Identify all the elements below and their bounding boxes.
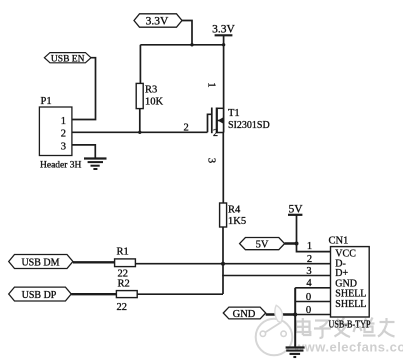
svg-text:R4: R4 (228, 205, 241, 216)
transistor T1 SI2301SD (208, 108, 270, 140)
wire T1 source down (222, 133, 224, 204)
wire CN1 pin4 GND stub (295, 287, 330, 289)
power port 3.3V (212, 23, 235, 45)
junction R3/pin2 (138, 131, 141, 134)
svg-text:2: 2 (61, 129, 66, 140)
svg-text:R2: R2 (118, 279, 130, 290)
ground CN1 (286, 348, 305, 358)
svg-text:Header 3H: Header 3H (40, 160, 82, 170)
svg-text:5V: 5V (256, 240, 269, 251)
wire R2 to R4 rail (137, 293, 223, 295)
svg-text:CN1: CN1 (329, 236, 349, 247)
svg-text:2: 2 (213, 128, 218, 139)
svg-text:22: 22 (117, 302, 128, 313)
junction (190, 43, 193, 46)
wire R1 to CN1 pin2 (D-) (135, 263, 330, 265)
svg-text:3: 3 (306, 266, 311, 277)
wire USB_DP to R2 (71, 293, 116, 295)
svg-text:10K: 10K (145, 97, 164, 108)
net label USB_EN flag (44, 53, 91, 65)
wire bus to R3 (139, 45, 141, 84)
svg-text:0: 0 (306, 292, 311, 303)
svg-text:USB DP: USB DP (22, 290, 57, 301)
watermark logo sprout (overlaps wire) (275, 305, 283, 322)
net label GND flag (223, 307, 265, 320)
svg-text:1: 1 (206, 82, 217, 87)
svg-text:USB EN: USB EN (51, 54, 85, 64)
wire CN1 pin5 shell stub (295, 301, 330, 303)
svg-text:USB-B-TYP: USB-B-TYP (329, 320, 371, 331)
svg-text:3.3V: 3.3V (146, 16, 169, 28)
wire R4 down to D+ line (222, 227, 224, 294)
wire 3.3V flag to bus (182, 21, 192, 45)
connector P1 (39, 96, 81, 171)
junction (222, 43, 225, 46)
wire R3 to gate net (139, 109, 141, 133)
svg-text:GND: GND (233, 309, 256, 320)
svg-text:SI2301SD: SI2301SD (228, 120, 270, 131)
wire D+ to CN1 pin3 (222, 275, 330, 277)
power port 5V (288, 204, 331, 252)
svg-text:R3: R3 (145, 85, 157, 96)
ground P1 (84, 159, 107, 170)
resistor R3 (136, 83, 163, 108)
wire USB_EN to P1 pin1 (72, 58, 96, 120)
resistor R2 (116, 279, 137, 313)
wire 5V flag to 5V stem (285, 242, 297, 245)
resistor R1 (115, 246, 136, 279)
svg-text:USB DM: USB DM (21, 258, 59, 269)
wire 3.3V horizontal bus (140, 44, 223, 46)
wire P1 pin2 to T1 gate (72, 131, 208, 133)
net label USB_DM flag (9, 255, 73, 269)
svg-text:1: 1 (307, 241, 312, 252)
wire P1 pin3 to ground (72, 145, 95, 158)
svg-text:SHELL: SHELL (335, 299, 366, 310)
wire GND flag to CN1 pin6 (266, 313, 296, 315)
connector CN1 (329, 236, 371, 331)
svg-text:3.3V: 3.3V (212, 23, 235, 35)
svg-text:R1: R1 (117, 246, 129, 257)
net label USB_DP flag (9, 287, 71, 301)
net label 3.3V flag (134, 14, 182, 28)
svg-text:2: 2 (307, 254, 312, 265)
resistor R4 (220, 203, 246, 227)
watermark text dianzifashaoyou (hand-drawn glyph blocks) (296, 318, 395, 339)
junction gnd (293, 313, 297, 317)
svg-text:3: 3 (206, 158, 217, 163)
net label 5V flag (240, 238, 285, 251)
svg-text:1: 1 (61, 116, 66, 127)
wire USB_DM to R1 (73, 261, 115, 263)
wire 3.3V rail to T1 drain (223, 45, 225, 133)
junction D- / R4 (221, 262, 225, 266)
junction 5V (295, 242, 299, 246)
svg-text:3: 3 (61, 142, 66, 153)
watermark logo circle main (256, 319, 293, 356)
svg-text:www.elecfans.com: www.elecfans.com (293, 340, 403, 355)
wire gnd bracket vertical (294, 288, 296, 347)
svg-text:P1: P1 (41, 96, 52, 107)
svg-text:T1: T1 (228, 108, 240, 119)
svg-text:1K5: 1K5 (228, 216, 246, 227)
svg-text:2: 2 (184, 123, 189, 134)
